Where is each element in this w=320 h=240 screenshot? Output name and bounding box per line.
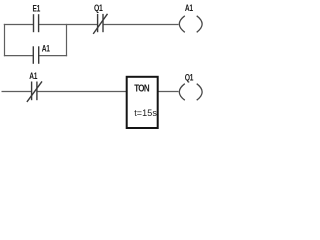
- wire rung2 segment right: [159, 91, 179, 93]
- contact E1 (NO): [34, 14, 39, 32]
- wire rung1 segment left: [4, 24, 34, 26]
- wire rung2 segment mid: [37, 91, 126, 93]
- coil Q1: [179, 84, 202, 101]
- coil A1: [179, 16, 202, 33]
- wire branch right vertical: [66, 24, 68, 56]
- svg-text:A1: A1: [29, 71, 38, 81]
- contact A1 (NC, rung2): [27, 81, 42, 102]
- wire rung1 segment right: [103, 24, 179, 26]
- svg-text:Q1: Q1: [94, 3, 103, 13]
- contact Q1 (NC): [93, 14, 107, 34]
- wire branch bottom left: [4, 55, 33, 57]
- wire rung1 segment mid: [39, 24, 98, 26]
- svg-text:t=15s: t=15s: [134, 108, 157, 118]
- wire rung2 segment left: [2, 91, 32, 93]
- svg-text:E1: E1: [32, 3, 40, 13]
- svg-text:A1: A1: [185, 3, 194, 13]
- contact A1 (NO, branch): [33, 46, 38, 64]
- wire branch left vertical: [4, 24, 6, 56]
- timer block TON: [127, 77, 158, 128]
- svg-text:A1: A1: [42, 43, 51, 53]
- wire branch bottom right: [39, 55, 67, 57]
- svg-text:Q1: Q1: [185, 72, 194, 82]
- svg-text:TON: TON: [134, 83, 149, 94]
